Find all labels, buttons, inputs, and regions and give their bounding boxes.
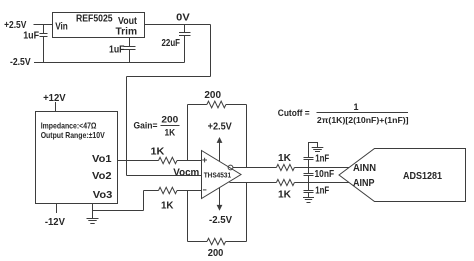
svg-text:200: 200 [161,114,178,124]
wire Vout to 0V node [145,24,211,26]
capacitor 10nF (differential) [304,174,314,176]
svg-text:2π(1K)[2(10nF)+(1nF)]: 2π(1K)[2(10nF)+(1nF)] [317,115,409,125]
wire Vo1 lead [118,160,159,162]
label Cutoff formula [278,102,409,125]
ground (bottom filter) [303,198,314,203]
pin - marker [203,189,207,191]
svg-text:Output Range:±10V: Output Range:±10V [41,130,105,140]
svg-text:1uF: 1uF [23,30,39,41]
wire top 1nF to AINN line [308,160,310,168]
wire feedback top lead right [226,104,247,106]
wire input cap to -2.5V rail [43,37,45,63]
svg-text:1K: 1K [151,147,166,158]
source block [36,112,118,204]
wire +12V stub [55,102,57,112]
svg-text:Vin: Vin [55,21,68,32]
svg-text:200: 200 [204,90,221,101]
wire top input to amp [177,160,202,162]
capacitor 22uF [179,33,191,36]
wire 0V node down-right vertical [210,25,212,77]
output bubble [228,165,233,170]
wire up to bottom input line [143,191,145,211]
wire 10nF to AINP line [308,176,310,183]
wire AINN line to ADC [294,167,349,169]
svg-text:1K: 1K [161,201,174,212]
wire AINP line to ADC [294,182,349,184]
wire Trim to trim cap [129,38,131,47]
wire bottom 1nF to ground [308,193,310,198]
svg-text:ADS1281: ADS1281 [403,171,442,182]
label Gain fraction [134,114,180,137]
wire feedback bottom right vertical [246,183,248,242]
voltage reference U REF5025 [53,13,145,38]
svg-text:200: 200 [208,248,224,259]
svg-text:THS4531: THS4531 [204,170,231,179]
resistor 200 (bottom feedback) [207,238,226,244]
resistor 1K (non-inverting input) [159,157,177,163]
wire -12V stub [56,204,58,214]
svg-text:1nF: 1nF [315,185,329,196]
svg-text:Trim: Trim [116,26,138,37]
capacitor 1uF trim [124,47,136,50]
wire feedback top left vertical [187,105,189,161]
svg-text:Vocm: Vocm [173,167,199,178]
svg-text:Vo3: Vo3 [93,190,113,201]
svg-text:-2.5V: -2.5V [209,215,232,226]
svg-text:1K: 1K [165,127,176,137]
wire bottom input lead [144,190,159,192]
svg-text:+2.5V: +2.5V [208,122,232,133]
wire top 1nF to ground route [309,143,318,158]
svg-text:REF5025: REF5025 [76,13,113,24]
svg-text:AINP: AINP [353,178,375,189]
op-amp THS4531 [202,151,242,199]
pin + marker [202,158,207,163]
svg-text:Vout: Vout [118,16,138,27]
svg-text:AINN: AINN [353,163,376,174]
adc ADS1281 [339,149,466,202]
supply -2.5V arrow [217,188,223,211]
svg-text:Vo2: Vo2 [92,171,112,182]
wire vertical down to Vocm [126,77,128,176]
wire AINN line to 10nF [308,168,310,174]
svg-text:-12V: -12V [45,217,65,228]
wire feedback top lead left [188,104,207,106]
wire return run to bottom 1K [93,210,144,212]
svg-text:1: 1 [354,102,359,112]
wire trim cap to rail [129,50,131,63]
wire amp bottom output [229,182,276,184]
wire horizontal 0V route [127,76,211,78]
svg-text:Cutoff =: Cutoff = [278,108,310,118]
svg-text:Impedance:<47Ω: Impedance:<47Ω [41,120,97,130]
svg-text:0V: 0V [176,12,190,23]
svg-text:1K: 1K [278,153,292,164]
wire feedback bottom lead left [188,241,208,243]
svg-text:Gain=: Gain= [134,121,158,131]
wire amp top output [233,167,276,169]
svg-text:10nF: 10nF [315,169,335,180]
svg-text:1K: 1K [278,190,292,201]
resistor 1K (AINP filter) [276,179,294,185]
wire feedback top right vertical [246,105,248,168]
ground (top filter) [312,148,324,152]
capacitor 1nF (AINP to gnd) [304,191,314,193]
wire junction down to input cap [43,25,45,34]
resistor 1K (inverting input) [159,187,177,193]
wire feedback bottom lead right [226,241,247,243]
svg-text:22uF: 22uF [162,38,181,49]
svg-text:+12V: +12V [43,93,66,104]
wire 0V node down to 22uF [184,25,186,33]
wire ground stub from box [92,204,94,219]
svg-text:Vo1: Vo1 [92,154,112,165]
capacitor 1nF (AINN to gnd) [304,158,314,160]
resistor 200 (top feedback) [207,101,226,108]
capacitor 1uF input bypass [40,34,48,37]
wire AINP line to bottom 1nF [308,183,310,191]
wire bottom input to amp [177,190,202,192]
svg-text:-2.5V: -2.5V [10,57,31,68]
resistor 1K (AINN filter) [276,164,294,170]
supply +2.5V arrow [217,137,223,162]
wire 22uF to rail [184,36,186,63]
svg-text:1nF: 1nF [315,154,329,165]
wire Vocm into amp [127,175,202,177]
ground (source return) [87,219,99,224]
svg-text:1uF: 1uF [109,45,125,56]
wire +2.5V to Vin [34,24,53,26]
wire feedback bottom left vertical [187,191,189,242]
wire -2.5V rail [34,62,185,64]
